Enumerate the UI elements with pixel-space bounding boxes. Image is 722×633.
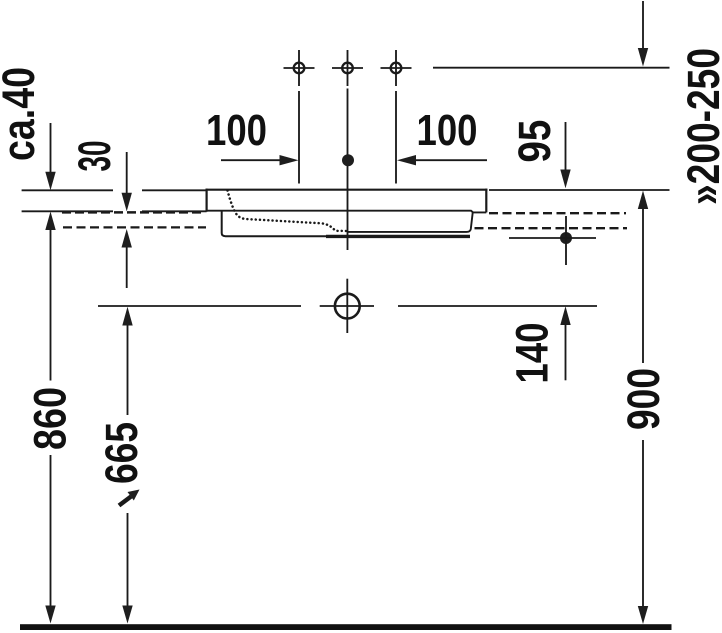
dotted bowl profile — [228, 191, 347, 232]
svg-text:140: 140 — [507, 323, 558, 384]
floor line — [20, 624, 672, 630]
extension line below right circle — [395, 91, 397, 184]
faucet hole circle center — [332, 50, 363, 86]
dimension 140 up arrow — [560, 306, 570, 380]
faucet hole circle right — [381, 50, 412, 86]
svg-text:»200-250: »200-250 — [678, 48, 722, 205]
dimension 30 down arrow — [122, 152, 132, 211]
basin rim outline — [206, 189, 488, 213]
counter surface line left b — [142, 210, 207, 212]
dimension 665 line with arrows — [122, 307, 132, 624]
svg-text:860: 860 — [25, 387, 76, 450]
svg-text:100: 100 — [206, 106, 267, 155]
drain reference line right — [398, 305, 597, 307]
svg-text:ca.40: ca.40 — [0, 67, 44, 161]
dashed underside line left — [63, 226, 206, 228]
wire top arrow 200-250 — [638, 1, 648, 67]
faucet hole circle left — [284, 50, 315, 86]
dashed counter line left — [62, 211, 205, 214]
svg-text:95: 95 — [509, 120, 560, 163]
center line upper — [347, 89, 349, 251]
drain hole circle — [320, 279, 374, 333]
dimension 30 up arrow — [122, 229, 132, 288]
adjustable symbol arrow NE — [119, 490, 140, 506]
svg-text:30: 30 — [69, 141, 120, 172]
svg-text:100: 100 — [417, 106, 478, 155]
dashed underside line right — [475, 227, 628, 229]
dimension 100 right — [397, 155, 487, 165]
dimension 100 left — [221, 155, 299, 165]
svg-text:665: 665 — [96, 422, 147, 484]
basin body right and inner bottom — [348, 213, 473, 232]
basin rim bottom line — [207, 211, 487, 213]
basin body left and bottom — [222, 211, 327, 237]
dimension ca.40 down arrow — [45, 123, 55, 190]
dot marker on center line — [342, 154, 354, 166]
extension line below left circle — [298, 91, 300, 184]
mounting point dot marker — [509, 216, 596, 265]
basin mounting flange thick bar — [326, 235, 470, 238]
dashed counter line right — [489, 212, 626, 214]
rim top level line left b — [142, 189, 207, 191]
dimension 95 down arrow — [560, 122, 570, 188]
svg-text:900: 900 — [618, 368, 669, 430]
counter surface line left a — [22, 210, 113, 212]
drain reference line left — [98, 305, 301, 307]
dimension 860 line with up and down arrows — [45, 212, 55, 624]
dimension 900 and 200-250 shared line — [638, 191, 648, 625]
rim top level line left a — [22, 189, 113, 191]
rim top level line right — [489, 189, 670, 191]
top reference line — [433, 67, 670, 69]
